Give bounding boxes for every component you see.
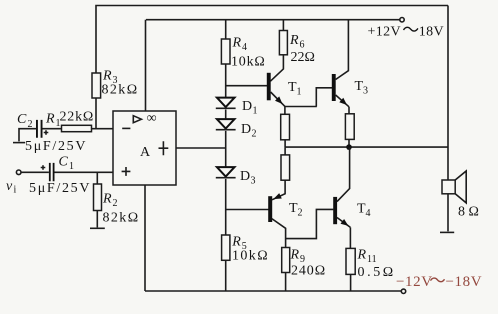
svg-text:A: A xyxy=(140,145,151,160)
svg-text:8Ω: 8Ω xyxy=(458,205,482,220)
svg-text:R: R xyxy=(290,248,300,263)
wire: T1 emitter xyxy=(271,92,285,106)
svg-text:R: R xyxy=(232,36,242,51)
svg-text:i: i xyxy=(14,185,17,196)
wire: R4 to D1 / T1 base node xyxy=(225,64,227,98)
op-amp infinity gain mark xyxy=(133,116,141,123)
wire: node to R2 xyxy=(96,172,98,184)
wire: R10 to output node xyxy=(348,139,350,147)
wire: R11 to -V rail xyxy=(350,274,352,291)
diode D3 xyxy=(217,167,235,176)
transistor T3 xyxy=(332,74,336,101)
wire: -V rail xyxy=(145,290,401,292)
op-amp output plus mark xyxy=(159,141,169,155)
wire: op-amp output to diode chain xyxy=(176,147,226,149)
resistor R11 xyxy=(346,248,355,274)
resistor R5 xyxy=(222,235,230,260)
wire: R2 to ground xyxy=(96,211,98,228)
wire: speaker to ground xyxy=(447,194,449,232)
wire: output node to R8 xyxy=(284,147,286,155)
wire: C2 left lead to ground xyxy=(19,129,37,142)
terminal -V xyxy=(401,289,405,293)
wire: T3 collector to +V rail xyxy=(336,20,349,80)
svg-text:D: D xyxy=(240,169,250,184)
resistor R3 xyxy=(92,73,101,98)
terminal +V xyxy=(400,18,404,22)
transistor T1 xyxy=(267,73,271,101)
svg-text:10kΩ: 10kΩ xyxy=(232,249,269,264)
svg-text:+12V: +12V xyxy=(368,25,401,40)
svg-text:D: D xyxy=(242,99,252,114)
wire: T1 base xyxy=(226,85,268,87)
svg-text:1: 1 xyxy=(69,161,74,172)
svg-text:−12V: −12V xyxy=(396,274,433,290)
wire: +V rail xyxy=(146,19,400,21)
svg-text:22kΩ: 22kΩ xyxy=(60,110,95,125)
wire: R6 to T1 collector xyxy=(270,55,283,81)
transistor T2 xyxy=(268,196,272,222)
svg-text:−18V: −18V xyxy=(446,274,483,290)
wire: T3 emitter xyxy=(336,95,349,107)
svg-text:D: D xyxy=(241,122,251,137)
capacitor C2 xyxy=(36,120,43,138)
ground (R2) xyxy=(90,227,105,229)
svg-text:v: v xyxy=(6,179,13,194)
wire: output line to speaker xyxy=(285,146,448,148)
resistor R6 xyxy=(279,31,287,55)
resistor R2 xyxy=(94,184,102,211)
speaker xyxy=(442,180,455,194)
svg-text:∞: ∞ xyxy=(147,111,157,126)
resistor R7 (unlabeled) xyxy=(281,114,290,140)
svg-text:2: 2 xyxy=(298,208,303,219)
wire: C2 to R1 xyxy=(43,128,62,130)
wire: D1 to D2 xyxy=(225,110,227,120)
resistor R1 xyxy=(62,125,92,131)
svg-text:82kΩ: 82kΩ xyxy=(102,83,139,98)
svg-text:240Ω: 240Ω xyxy=(291,264,326,279)
svg-text:4: 4 xyxy=(366,208,371,219)
op-amp A (box symbol) xyxy=(113,111,176,185)
wire: D2 to D3 (op-amp output node) xyxy=(225,131,227,167)
wire: R9 to -V rail xyxy=(285,273,287,292)
wire: T2 base xyxy=(226,209,269,211)
polarity + of C1 xyxy=(41,165,46,170)
node: output junction dot xyxy=(346,144,352,150)
svg-text:3: 3 xyxy=(251,176,256,187)
wire: T2 collector to R9 / T4 base xyxy=(272,219,286,248)
wire: op-amp negative supply down xyxy=(144,185,146,291)
svg-text:18V: 18V xyxy=(419,25,444,40)
ground (speaker) xyxy=(440,231,454,233)
svg-text:C: C xyxy=(59,155,69,170)
svg-text:6: 6 xyxy=(300,40,305,51)
svg-text:R: R xyxy=(102,192,112,207)
wire: T3 base path from T1 emitter xyxy=(316,88,332,107)
svg-text:3: 3 xyxy=(363,86,368,97)
wire: C1 to op-amp non-inverting input xyxy=(55,171,114,173)
svg-text:R: R xyxy=(45,112,55,127)
ground (C2) xyxy=(13,142,25,144)
polarity + of C2 xyxy=(44,130,49,135)
wire: feedback right column to output/speaker xyxy=(447,6,449,181)
wire: R5 to -V rail xyxy=(225,260,227,291)
wire: T4 collector to output node xyxy=(337,147,350,202)
svg-text:2: 2 xyxy=(252,129,257,140)
wire: vi to C1 xyxy=(21,171,49,173)
svg-text:R: R xyxy=(102,69,112,84)
input terminal vi xyxy=(16,170,21,175)
svg-text:1: 1 xyxy=(253,106,258,117)
wire: +V rail to R4 xyxy=(225,20,227,39)
svg-text:0.5Ω: 0.5Ω xyxy=(358,265,396,280)
transistor T4 xyxy=(333,197,337,224)
wire: D3 to R5 / T2 base node xyxy=(225,179,227,235)
svg-text:82kΩ: 82kΩ xyxy=(103,211,140,226)
svg-text:4: 4 xyxy=(242,42,247,53)
op-amp minus pin mark xyxy=(122,127,130,129)
resistor R10 (unlabeled) xyxy=(345,114,354,140)
wire: T4 emitter to R11 xyxy=(337,218,350,228)
svg-text:R: R xyxy=(289,33,299,48)
diode D2 xyxy=(217,119,235,128)
svg-text:22Ω: 22Ω xyxy=(291,50,315,65)
resistor R9 xyxy=(282,248,290,273)
op-amp plus pin mark xyxy=(122,167,131,176)
svg-text:5μF/25V: 5μF/25V xyxy=(29,181,91,196)
svg-text:2: 2 xyxy=(113,198,118,209)
wire: +V rail to R6 xyxy=(282,20,284,31)
diode D1 xyxy=(217,98,235,107)
resistor R4 xyxy=(221,39,230,64)
svg-text:1: 1 xyxy=(297,87,302,98)
resistor R8 (unlabeled) xyxy=(281,155,290,180)
svg-text:11: 11 xyxy=(367,254,377,265)
node: T1 emitter junction xyxy=(285,106,317,108)
capacitor C1 xyxy=(49,163,55,181)
svg-text:C: C xyxy=(17,112,27,127)
wire: R1 to op-amp inverting input (node with R3) xyxy=(92,128,114,130)
wire: R7 to output node xyxy=(284,140,286,147)
svg-text:R: R xyxy=(231,235,241,250)
svg-text:10kΩ: 10kΩ xyxy=(231,55,266,70)
wire: feedback loop top (output to R3 column) xyxy=(96,6,448,129)
wire: R8 to T2 emitter xyxy=(272,180,285,200)
svg-text:R: R xyxy=(357,248,367,263)
svg-text:5μF/25V: 5μF/25V xyxy=(25,139,87,154)
wire: op-amp positive supply to +V rail xyxy=(145,20,147,111)
